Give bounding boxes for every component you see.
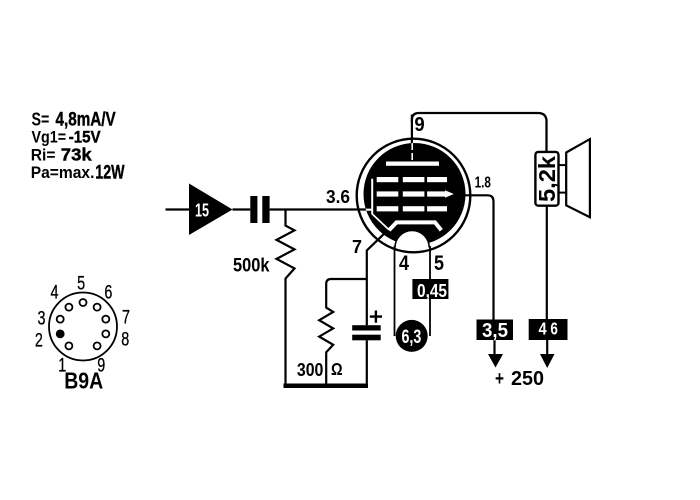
svg-text:+: + (495, 367, 504, 390)
svg-text:4: 4 (539, 319, 547, 339)
svg-text:15: 15 (195, 201, 209, 221)
svg-text:Pa=max.: Pa=max. (31, 163, 95, 182)
svg-text:6,3: 6,3 (402, 326, 422, 348)
svg-text:1.8: 1.8 (475, 173, 491, 191)
svg-text:6: 6 (550, 320, 558, 339)
svg-text:2: 2 (35, 330, 43, 352)
svg-text:B9A: B9A (64, 369, 103, 394)
svg-text:S=: S= (32, 110, 50, 130)
svg-text:6: 6 (104, 282, 112, 304)
svg-text:4: 4 (399, 252, 409, 276)
svg-text:3.6: 3.6 (326, 186, 350, 207)
svg-text:12W: 12W (95, 161, 124, 183)
svg-text:4: 4 (51, 282, 59, 304)
svg-text:3: 3 (38, 308, 46, 330)
svg-text:5: 5 (77, 272, 85, 294)
svg-text:9: 9 (414, 113, 424, 136)
svg-text:0,45: 0,45 (417, 279, 447, 301)
svg-text:250: 250 (511, 368, 544, 390)
svg-text:7: 7 (352, 236, 362, 258)
svg-text:7: 7 (122, 306, 130, 328)
svg-text:3,5: 3,5 (482, 319, 508, 342)
svg-text:Ri=: Ri= (31, 146, 56, 165)
svg-text:5: 5 (434, 252, 444, 276)
svg-text:5,2k: 5,2k (534, 156, 560, 202)
svg-text:8: 8 (121, 328, 129, 350)
svg-text:500k: 500k (233, 254, 270, 276)
svg-text:300: 300 (297, 359, 323, 381)
svg-text:4,8mA/V: 4,8mA/V (56, 108, 117, 130)
svg-text:Ω: Ω (331, 360, 343, 380)
svg-text:73k: 73k (61, 144, 93, 165)
